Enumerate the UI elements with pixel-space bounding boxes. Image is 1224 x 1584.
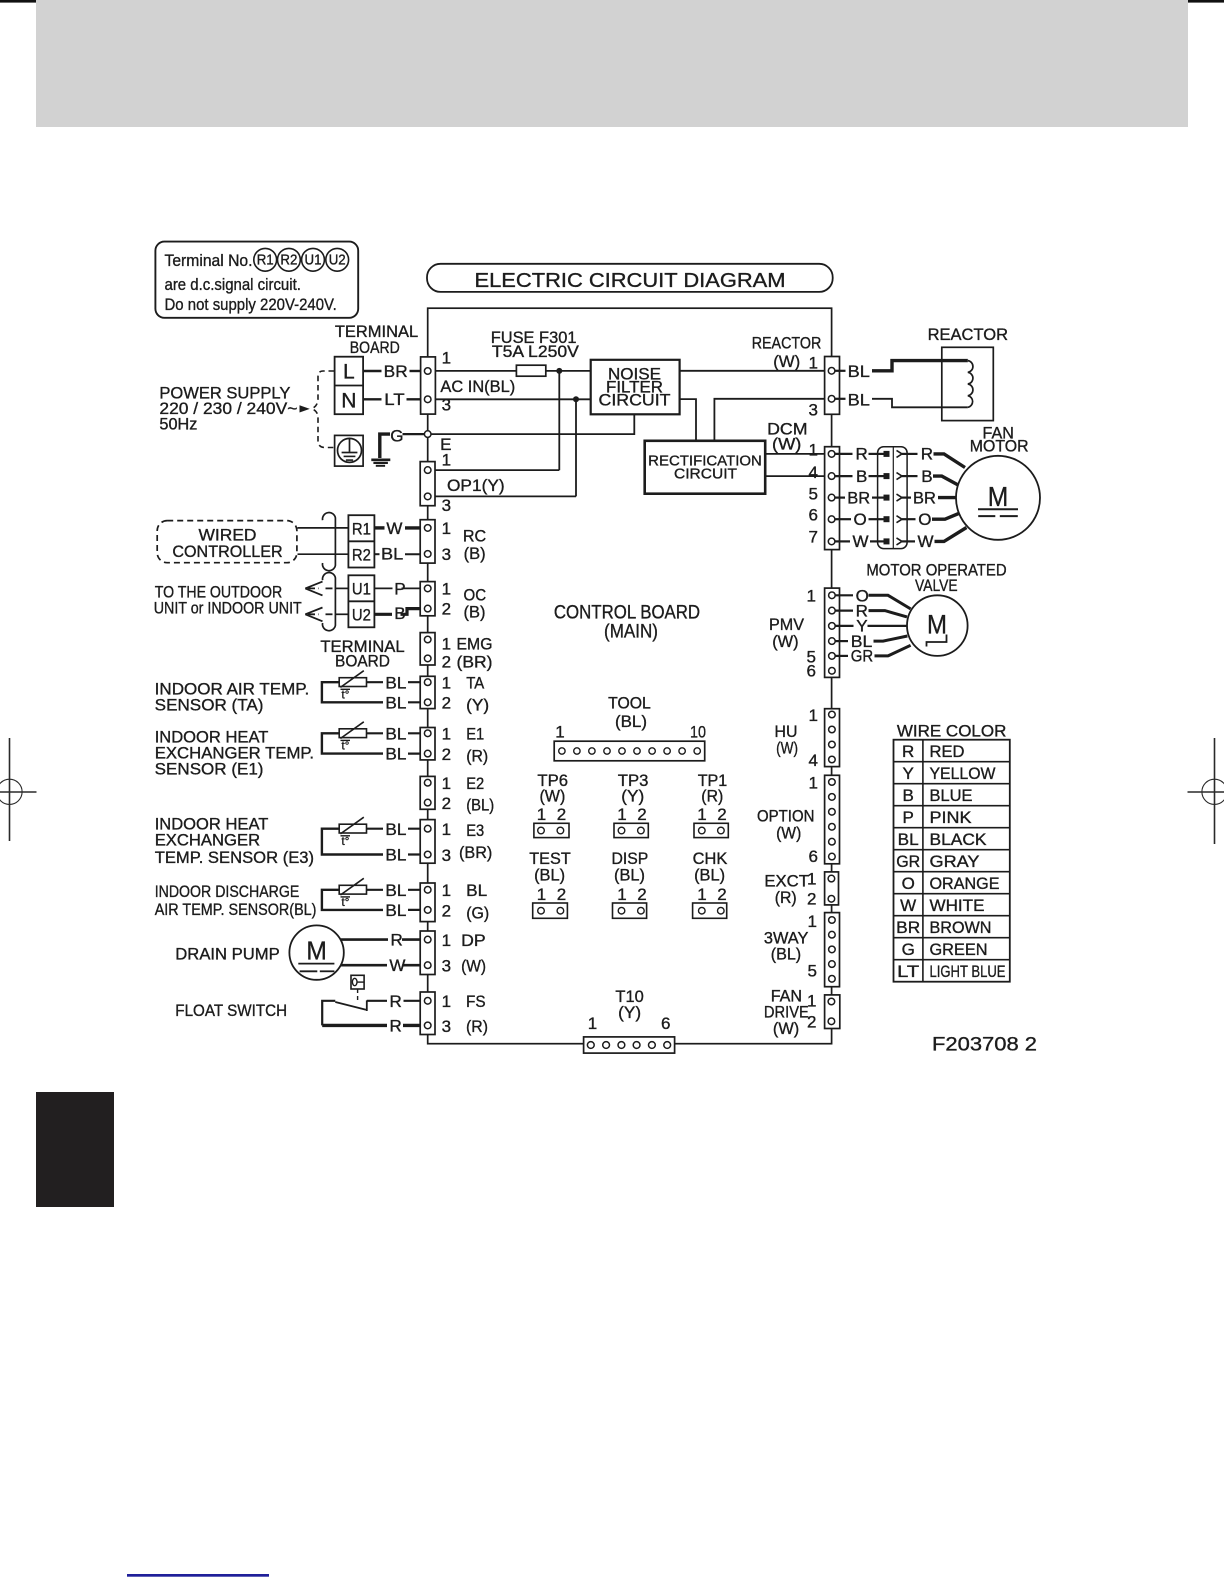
svg-text:GREEN: GREEN xyxy=(930,940,988,959)
wire AC-IN pin1 to fuse to noise filter xyxy=(431,370,516,372)
svg-text:BR: BR xyxy=(913,488,936,507)
svg-text:CIRCUIT: CIRCUIT xyxy=(674,466,737,483)
svg-text:5: 5 xyxy=(809,485,818,504)
svg-text:2: 2 xyxy=(442,794,451,813)
svg-text:1: 1 xyxy=(442,674,451,693)
TP1 (R) test point xyxy=(694,771,728,838)
note box: terminal numbers d.c. signal notice xyxy=(155,242,358,318)
power supply arrow xyxy=(300,405,310,412)
OPTION (W) connector on right edge xyxy=(809,774,840,866)
wire controller to R1 xyxy=(298,527,349,529)
svg-text:E1: E1 xyxy=(466,725,484,744)
svg-text:(W): (W) xyxy=(776,738,798,757)
svg-text:BL: BL xyxy=(385,881,406,900)
svg-text:CONTROL BOARD: CONTROL BOARD xyxy=(554,602,700,623)
svg-text:CIRCUIT: CIRCUIT xyxy=(599,390,671,409)
wire BR: L to AC-IN pin1 xyxy=(363,370,381,372)
svg-text:RC: RC xyxy=(463,527,486,546)
svg-text:Terminal No.: Terminal No. xyxy=(165,251,253,270)
DCM wire W row xyxy=(835,528,967,552)
svg-text:EXCHANGER: EXCHANGER xyxy=(155,831,260,850)
svg-text:TEMP. SENSOR (E3): TEMP. SENSOR (E3) xyxy=(155,848,314,867)
TP6 (W) test point xyxy=(534,771,569,838)
motor operated valve M xyxy=(907,595,968,656)
svg-text:M: M xyxy=(927,610,947,640)
top-left black strip xyxy=(0,0,36,3)
rectification circuit block xyxy=(645,441,766,494)
svg-text:BL: BL xyxy=(385,724,406,743)
svg-text:VALVE: VALVE xyxy=(915,576,958,595)
svg-text:LIGHT BLUE: LIGHT BLUE xyxy=(930,962,1006,981)
svg-text:BL: BL xyxy=(385,693,406,712)
top-right black strip xyxy=(1188,0,1224,3)
svg-text:YELLOW: YELLOW xyxy=(930,764,996,783)
connector DP (W) xyxy=(420,931,486,976)
svg-text:1: 1 xyxy=(442,931,451,950)
wire P: U1 to OC pin1 xyxy=(374,587,392,589)
svg-text:1: 1 xyxy=(807,586,816,605)
svg-text:R1: R1 xyxy=(257,253,274,269)
svg-text:1: 1 xyxy=(442,820,451,839)
svg-text:3: 3 xyxy=(442,545,451,564)
svg-text:1: 1 xyxy=(442,635,451,654)
wire W: drain pump to DP pin3 xyxy=(341,964,387,967)
connector T10 (Y) on bottom edge xyxy=(584,987,675,1053)
WIRED CONTROLLER dashed box xyxy=(157,521,297,563)
svg-text:1: 1 xyxy=(442,451,451,470)
connector OP1 (Y) xyxy=(420,451,504,515)
PMV wire O xyxy=(835,594,853,596)
svg-text:(BL): (BL) xyxy=(534,866,565,885)
connector E2 (BL) xyxy=(420,774,494,815)
svg-text:4: 4 xyxy=(809,463,818,482)
page header gray band xyxy=(36,0,1188,127)
svg-text:(W): (W) xyxy=(772,435,801,454)
svg-text:3: 3 xyxy=(442,846,451,865)
wire BL reactor pin3 xyxy=(835,398,846,400)
terminal board L/N block xyxy=(335,357,364,415)
svg-text:50Hz: 50Hz xyxy=(159,415,197,434)
svg-text:W: W xyxy=(900,896,916,915)
svg-text:10: 10 xyxy=(690,723,706,742)
svg-text:INDOOR DISCHARGE: INDOOR DISCHARGE xyxy=(155,882,300,901)
svg-text:UNIT or INDOOR UNIT: UNIT or INDOOR UNIT xyxy=(154,599,302,618)
black page marker rectangle lower-left xyxy=(36,1092,114,1207)
DCM wire B row xyxy=(835,467,960,486)
svg-text:SENSOR (E1): SENSOR (E1) xyxy=(155,760,264,779)
svg-text:(BL): (BL) xyxy=(694,866,725,885)
wire E terminal to noise filter bottom xyxy=(431,414,634,434)
svg-text:2: 2 xyxy=(442,694,451,713)
svg-text:1: 1 xyxy=(555,723,564,742)
svg-text:(W): (W) xyxy=(776,823,801,842)
svg-text:2: 2 xyxy=(717,885,726,904)
svg-text:(W): (W) xyxy=(773,352,800,371)
svg-text:W: W xyxy=(853,532,869,551)
svg-text:M: M xyxy=(306,936,327,966)
arrow to outdoor unit (lower) xyxy=(305,608,332,622)
svg-text:(B): (B) xyxy=(464,544,486,563)
connector RC (B) xyxy=(420,519,486,564)
wire R: drain pump to DP pin1 xyxy=(341,938,388,941)
svg-text:B: B xyxy=(903,786,914,805)
3WAY (BL) connector on right edge xyxy=(808,912,840,987)
svg-text:3: 3 xyxy=(442,396,451,415)
arrow to outdoor unit (upper) xyxy=(305,582,332,596)
svg-text:BL: BL xyxy=(385,901,406,920)
svg-text:R2: R2 xyxy=(280,253,297,269)
svg-text:1: 1 xyxy=(809,774,818,793)
svg-text:(BL): (BL) xyxy=(771,945,802,964)
svg-text:BR: BR xyxy=(896,918,920,937)
svg-text:6: 6 xyxy=(809,847,818,866)
svg-text:BR: BR xyxy=(384,362,408,381)
svg-text:BOARD: BOARD xyxy=(350,338,400,357)
fuse F301 xyxy=(516,365,545,376)
REACTOR (W) connector on right edge xyxy=(809,354,840,420)
svg-text:2: 2 xyxy=(717,805,726,824)
svg-text:2: 2 xyxy=(557,805,566,824)
svg-text:1: 1 xyxy=(442,725,451,744)
connector BL (G) xyxy=(420,881,489,922)
svg-text:O: O xyxy=(902,874,915,893)
REACTOR component box with coil xyxy=(928,325,1008,420)
wire W: R1 to RC pin1 xyxy=(374,526,384,529)
svg-text:BL: BL xyxy=(385,745,406,764)
HU (W) connector on right edge xyxy=(809,706,840,770)
svg-text:2: 2 xyxy=(557,885,566,904)
DCM wire BR row xyxy=(835,488,957,507)
svg-text:B: B xyxy=(394,604,405,623)
svg-text:F203708 2: F203708 2 xyxy=(932,1034,1037,1055)
fan motor harness connector block xyxy=(878,447,908,549)
wire noise filter right to rectification xyxy=(680,399,696,441)
svg-text:REACTOR: REACTOR xyxy=(752,333,822,352)
thermistor BL xyxy=(322,878,424,920)
svg-text:BL: BL xyxy=(848,390,870,409)
svg-text:MOTOR: MOTOR xyxy=(970,436,1029,455)
svg-text:(W): (W) xyxy=(773,1019,799,1038)
junction node on AC line 3 xyxy=(573,396,579,402)
wire OP1 pin3 xyxy=(431,495,576,497)
svg-text:RED: RED xyxy=(930,742,965,761)
svg-text:BL: BL xyxy=(848,362,870,381)
navy footer rule xyxy=(127,1574,269,1577)
thermistor E3 xyxy=(322,817,424,864)
wire BL reactor pin1 xyxy=(835,370,846,372)
svg-text:(W): (W) xyxy=(772,632,798,651)
svg-text:1: 1 xyxy=(537,805,546,824)
svg-text:SENSOR (TA): SENSOR (TA) xyxy=(155,696,264,715)
svg-text:R: R xyxy=(902,742,914,761)
float switch symbol xyxy=(322,975,367,1025)
svg-text:3: 3 xyxy=(442,957,451,976)
connector E3 (BR) xyxy=(420,820,492,865)
svg-text:7: 7 xyxy=(809,528,818,547)
CHK (BL) connector xyxy=(693,849,728,918)
wire reactor pin3 to rectification xyxy=(714,399,828,441)
protective earth terminal xyxy=(335,435,364,466)
TOOL (BL) connector xyxy=(554,694,706,761)
wire rectification to DCM pin1 xyxy=(765,453,828,455)
connector FS (R) xyxy=(420,992,488,1036)
svg-text:ORANGE: ORANGE xyxy=(930,874,1000,893)
EXCT1 (R) connector on right edge xyxy=(807,870,838,909)
svg-text:2: 2 xyxy=(442,653,451,672)
svg-text:R: R xyxy=(390,992,402,1011)
svg-text:1: 1 xyxy=(442,774,451,793)
svg-text:GR: GR xyxy=(851,647,873,666)
svg-text:BOARD: BOARD xyxy=(335,651,390,670)
svg-text:1: 1 xyxy=(588,1014,597,1033)
svg-text:U1: U1 xyxy=(352,580,371,599)
svg-text:3: 3 xyxy=(809,401,818,420)
svg-text:G: G xyxy=(390,426,403,445)
svg-text:W: W xyxy=(918,532,934,551)
connector TA (Y) xyxy=(420,674,489,715)
PMV wire BL xyxy=(835,640,848,642)
svg-text:BROWN: BROWN xyxy=(930,918,992,937)
svg-text:DRAIN PUMP: DRAIN PUMP xyxy=(175,945,279,964)
svg-text:LT: LT xyxy=(897,962,919,981)
svg-text:B: B xyxy=(921,467,932,486)
svg-text:1: 1 xyxy=(809,441,818,460)
wire junction down to OP1 pin3 xyxy=(575,399,577,496)
wire R: float switch return to FS pin3 xyxy=(322,1024,387,1027)
svg-text:BL: BL xyxy=(385,673,406,692)
svg-text:4: 4 xyxy=(809,751,818,770)
noise filter circuit block xyxy=(591,360,680,415)
svg-text:t°: t° xyxy=(342,690,350,702)
control board outline xyxy=(428,308,832,1043)
svg-text:U1: U1 xyxy=(305,253,322,269)
svg-text:(W): (W) xyxy=(461,957,486,976)
svg-text:LT: LT xyxy=(384,390,404,409)
svg-text:L: L xyxy=(343,361,355,384)
svg-text:6: 6 xyxy=(809,506,818,525)
svg-text:(Y): (Y) xyxy=(466,696,489,715)
svg-text:WHITE: WHITE xyxy=(930,896,985,915)
svg-text:BL: BL xyxy=(385,820,406,839)
svg-text:(R): (R) xyxy=(466,746,488,765)
svg-text:PINK: PINK xyxy=(930,808,973,827)
wire rectification to DCM pin4 xyxy=(765,475,828,477)
svg-text:(G): (G) xyxy=(466,903,489,922)
svg-text:W: W xyxy=(386,519,402,538)
title box ELECTRIC CIRCUIT DIAGRAM xyxy=(427,264,833,292)
node E terminal pin xyxy=(424,431,431,438)
svg-text:(BL): (BL) xyxy=(614,866,645,885)
svg-text:TOOL: TOOL xyxy=(608,694,651,713)
terminal U1/U2 block xyxy=(348,575,374,627)
cable clamp loop U1/U2 xyxy=(322,573,335,631)
svg-text:ELECTRIC CIRCUIT DIAGRAM: ELECTRIC CIRCUIT DIAGRAM xyxy=(475,270,786,292)
svg-text:CONTROLLER: CONTROLLER xyxy=(172,542,282,561)
wire BL: R2 to RC pin3 xyxy=(374,553,379,555)
PMV wire R xyxy=(835,609,853,611)
drain pump motor M xyxy=(289,925,343,979)
FAN DRIVE (W) connector on right edge xyxy=(807,991,840,1031)
svg-text:2: 2 xyxy=(442,745,451,764)
svg-text:U2: U2 xyxy=(352,606,371,625)
svg-text:2: 2 xyxy=(637,805,646,824)
svg-text:W: W xyxy=(389,956,405,975)
PMV (W) connector on right edge xyxy=(807,586,840,680)
wire noise filter to reactor pin1 xyxy=(680,370,829,372)
svg-text:2: 2 xyxy=(637,885,646,904)
svg-text:REACTOR: REACTOR xyxy=(928,325,1008,344)
svg-text:R: R xyxy=(391,931,403,950)
svg-text:R: R xyxy=(390,1016,402,1035)
chassis ground symbol xyxy=(371,434,390,466)
svg-text:t°: t° xyxy=(342,741,350,753)
DCM (W) connector on right edge xyxy=(809,441,840,550)
DCM wire O row xyxy=(835,510,964,529)
connector EMG (BR) xyxy=(420,633,492,672)
svg-text:6: 6 xyxy=(661,1014,670,1033)
svg-text:(MAIN): (MAIN) xyxy=(604,622,658,643)
svg-text:U2: U2 xyxy=(329,253,346,269)
svg-text:GRAY: GRAY xyxy=(930,852,980,871)
DCM wire R row xyxy=(835,445,965,468)
connector AC IN (BL) xyxy=(421,349,516,415)
svg-text:O: O xyxy=(854,510,867,529)
svg-text:2: 2 xyxy=(442,600,451,619)
terminal R1/R2 block xyxy=(348,515,374,567)
svg-text:(BL): (BL) xyxy=(466,796,494,815)
svg-text:OP1(Y): OP1(Y) xyxy=(447,476,505,495)
svg-text:(Y): (Y) xyxy=(621,787,644,806)
svg-text:FS: FS xyxy=(466,992,486,1011)
svg-text:N: N xyxy=(341,390,356,413)
svg-text:WIRE COLOR: WIRE COLOR xyxy=(897,722,1007,741)
svg-text:EMG: EMG xyxy=(457,635,493,654)
svg-text:R2: R2 xyxy=(352,546,371,565)
svg-text:(Y): (Y) xyxy=(618,1003,641,1022)
svg-text:AIR TEMP. SENSOR(BL): AIR TEMP. SENSOR(BL) xyxy=(155,900,317,919)
svg-text:1: 1 xyxy=(617,885,626,904)
left registration crop mark xyxy=(0,738,36,841)
svg-text:t°: t° xyxy=(342,836,350,848)
PMV wire GR xyxy=(835,655,848,657)
svg-text:3: 3 xyxy=(442,496,451,515)
svg-text:(BR): (BR) xyxy=(457,653,493,672)
svg-text:(BL): (BL) xyxy=(615,712,647,731)
svg-text:1: 1 xyxy=(442,349,451,368)
svg-text:GR: GR xyxy=(896,852,920,871)
svg-text:R: R xyxy=(921,445,933,464)
svg-text:1: 1 xyxy=(442,881,451,900)
wire LT: N to AC-IN pin3 xyxy=(363,398,381,400)
svg-text:BL: BL xyxy=(466,881,487,900)
svg-text:AC IN(BL): AC IN(BL) xyxy=(440,377,515,396)
svg-text:1: 1 xyxy=(617,805,626,824)
wire controller to R2 xyxy=(298,553,349,555)
svg-text:2: 2 xyxy=(807,890,816,909)
wire OP1 pin1 xyxy=(431,469,559,471)
connector OC (B) xyxy=(420,579,486,621)
svg-text:E3: E3 xyxy=(466,821,484,840)
power supply dashed brace xyxy=(312,371,334,448)
svg-text:(W): (W) xyxy=(539,787,565,806)
svg-text:5: 5 xyxy=(808,962,817,981)
wire U2 to loop xyxy=(336,613,348,615)
svg-text:1: 1 xyxy=(442,519,451,538)
wire G to E terminal xyxy=(403,433,425,435)
fan motor M xyxy=(956,456,1040,540)
svg-text:6: 6 xyxy=(807,662,816,681)
wire junction down to OP1 pin1 xyxy=(558,371,560,470)
thermistor E1 xyxy=(322,722,424,764)
svg-text:T5A L250V: T5A L250V xyxy=(492,342,580,361)
wire R: float switch to FS pin1 xyxy=(367,1000,387,1002)
TEST (BL) connector xyxy=(529,849,571,918)
svg-text:G: G xyxy=(902,940,915,959)
svg-text:1: 1 xyxy=(697,885,706,904)
wire AC-IN pin3 to noise filter xyxy=(431,398,591,400)
cable clamp loop R1/R2 xyxy=(322,513,335,571)
svg-text:1: 1 xyxy=(808,912,817,931)
svg-text:1: 1 xyxy=(537,885,546,904)
PMV wire Y xyxy=(835,625,853,627)
svg-text:(R): (R) xyxy=(701,787,723,806)
svg-text:1: 1 xyxy=(809,706,818,725)
svg-text:(R): (R) xyxy=(775,888,797,907)
svg-text:P: P xyxy=(903,808,914,827)
svg-text:(R): (R) xyxy=(466,1017,488,1036)
svg-text:M: M xyxy=(988,481,1009,512)
svg-text:BR: BR xyxy=(847,488,870,507)
svg-text:(BR): (BR) xyxy=(459,843,492,862)
svg-text:R1: R1 xyxy=(352,519,371,538)
connector E1 (R) xyxy=(420,725,488,766)
svg-text:B: B xyxy=(856,467,867,486)
svg-text:1: 1 xyxy=(442,579,451,598)
svg-text:1: 1 xyxy=(809,354,818,373)
TP3 (Y) test point xyxy=(614,771,648,838)
svg-text:1: 1 xyxy=(442,992,451,1011)
svg-text:DP: DP xyxy=(461,931,486,950)
svg-text:P: P xyxy=(394,579,405,598)
junction node on AC line 1 xyxy=(556,368,562,374)
svg-text:BLUE: BLUE xyxy=(930,786,973,805)
svg-text:t°: t° xyxy=(342,897,350,909)
svg-text:3: 3 xyxy=(442,1017,451,1036)
svg-text:BL: BL xyxy=(898,830,919,849)
svg-text:O: O xyxy=(918,510,931,529)
svg-text:BL: BL xyxy=(381,545,403,564)
DISP (BL) connector xyxy=(612,849,649,918)
svg-text:(B): (B) xyxy=(464,602,486,621)
svg-text:Y: Y xyxy=(903,764,914,783)
svg-text:BLACK: BLACK xyxy=(930,830,988,849)
WIRE COLOR table xyxy=(894,722,1010,982)
svg-text:2: 2 xyxy=(442,901,451,920)
wire B: U2 to OC pin2 xyxy=(374,613,392,616)
svg-text:Do not supply 220V-240V.: Do not supply 220V-240V. xyxy=(165,295,337,314)
thermistor TA xyxy=(322,671,424,713)
svg-text:R: R xyxy=(856,445,868,464)
svg-text:1: 1 xyxy=(697,805,706,824)
right registration crop mark xyxy=(1188,738,1224,844)
svg-text:TA: TA xyxy=(466,674,485,693)
svg-text:are d.c.signal circuit.: are d.c.signal circuit. xyxy=(165,275,301,294)
wire U1 to loop xyxy=(336,587,348,589)
svg-text:BL: BL xyxy=(385,846,406,865)
svg-text:FLOAT SWITCH: FLOAT SWITCH xyxy=(175,1001,287,1020)
svg-text:E2: E2 xyxy=(466,774,484,793)
